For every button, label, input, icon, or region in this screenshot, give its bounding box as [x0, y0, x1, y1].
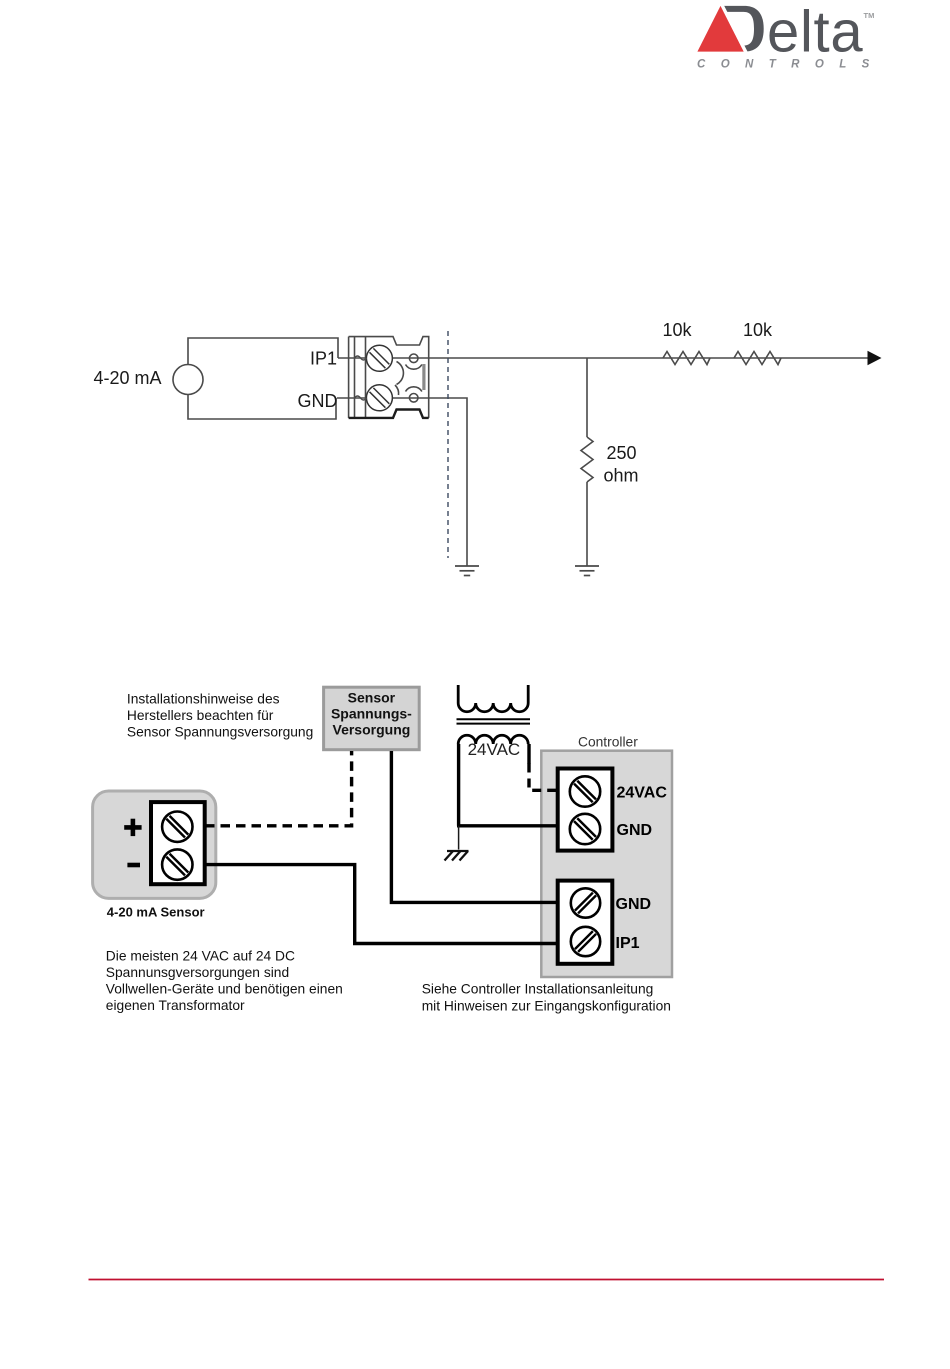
svg-text:24VAC: 24VAC: [468, 740, 521, 759]
svg-text:Controller: Controller: [578, 735, 638, 750]
svg-text:Spannungs-: Spannungs-: [331, 706, 412, 722]
svg-text:CONTROLS: CONTROLS: [697, 59, 885, 71]
svg-text:GND: GND: [298, 391, 338, 411]
svg-text:Versorgung: Versorgung: [333, 722, 411, 738]
svg-text:10k: 10k: [662, 320, 692, 340]
svg-text:10k: 10k: [743, 320, 773, 340]
svg-text:TM: TM: [864, 11, 875, 20]
svg-text:ohm: ohm: [604, 466, 639, 486]
svg-text:elta: elta: [767, 0, 863, 65]
svg-text:IP1: IP1: [310, 349, 337, 369]
svg-text:250: 250: [607, 443, 637, 463]
svg-text:GND: GND: [616, 896, 652, 913]
svg-text:Spannunsgversorgungen sind: Spannunsgversorgungen sind: [106, 965, 289, 980]
svg-text:mit Hinweisen zur Eingangskonf: mit Hinweisen zur Eingangskonfiguration: [422, 999, 671, 1014]
svg-text:24VAC: 24VAC: [617, 785, 668, 802]
svg-text:4-20 mA: 4-20 mA: [94, 368, 162, 388]
svg-text:4-20 mA Sensor: 4-20 mA Sensor: [107, 905, 205, 920]
svg-text:Herstellers beachten für: Herstellers beachten für: [127, 708, 274, 723]
svg-text:Sensor: Sensor: [348, 690, 396, 706]
svg-text:Vollwellen-Geräte und benötige: Vollwellen-Geräte und benötigen einen: [106, 982, 343, 997]
svg-text:Installationshinweise des: Installationshinweise des: [127, 692, 280, 707]
svg-text:Sensor Spannungsversorgung: Sensor Spannungsversorgung: [127, 724, 313, 739]
svg-text:Die meisten 24 VAC auf 24 DC: Die meisten 24 VAC auf 24 DC: [106, 949, 295, 964]
svg-text:IP1: IP1: [616, 935, 640, 952]
svg-text:Siehe Controller Installations: Siehe Controller Installationsanleitung: [422, 982, 654, 997]
svg-text:eigenen Transformator: eigenen Transformator: [106, 998, 245, 1013]
svg-text:GND: GND: [617, 822, 653, 839]
